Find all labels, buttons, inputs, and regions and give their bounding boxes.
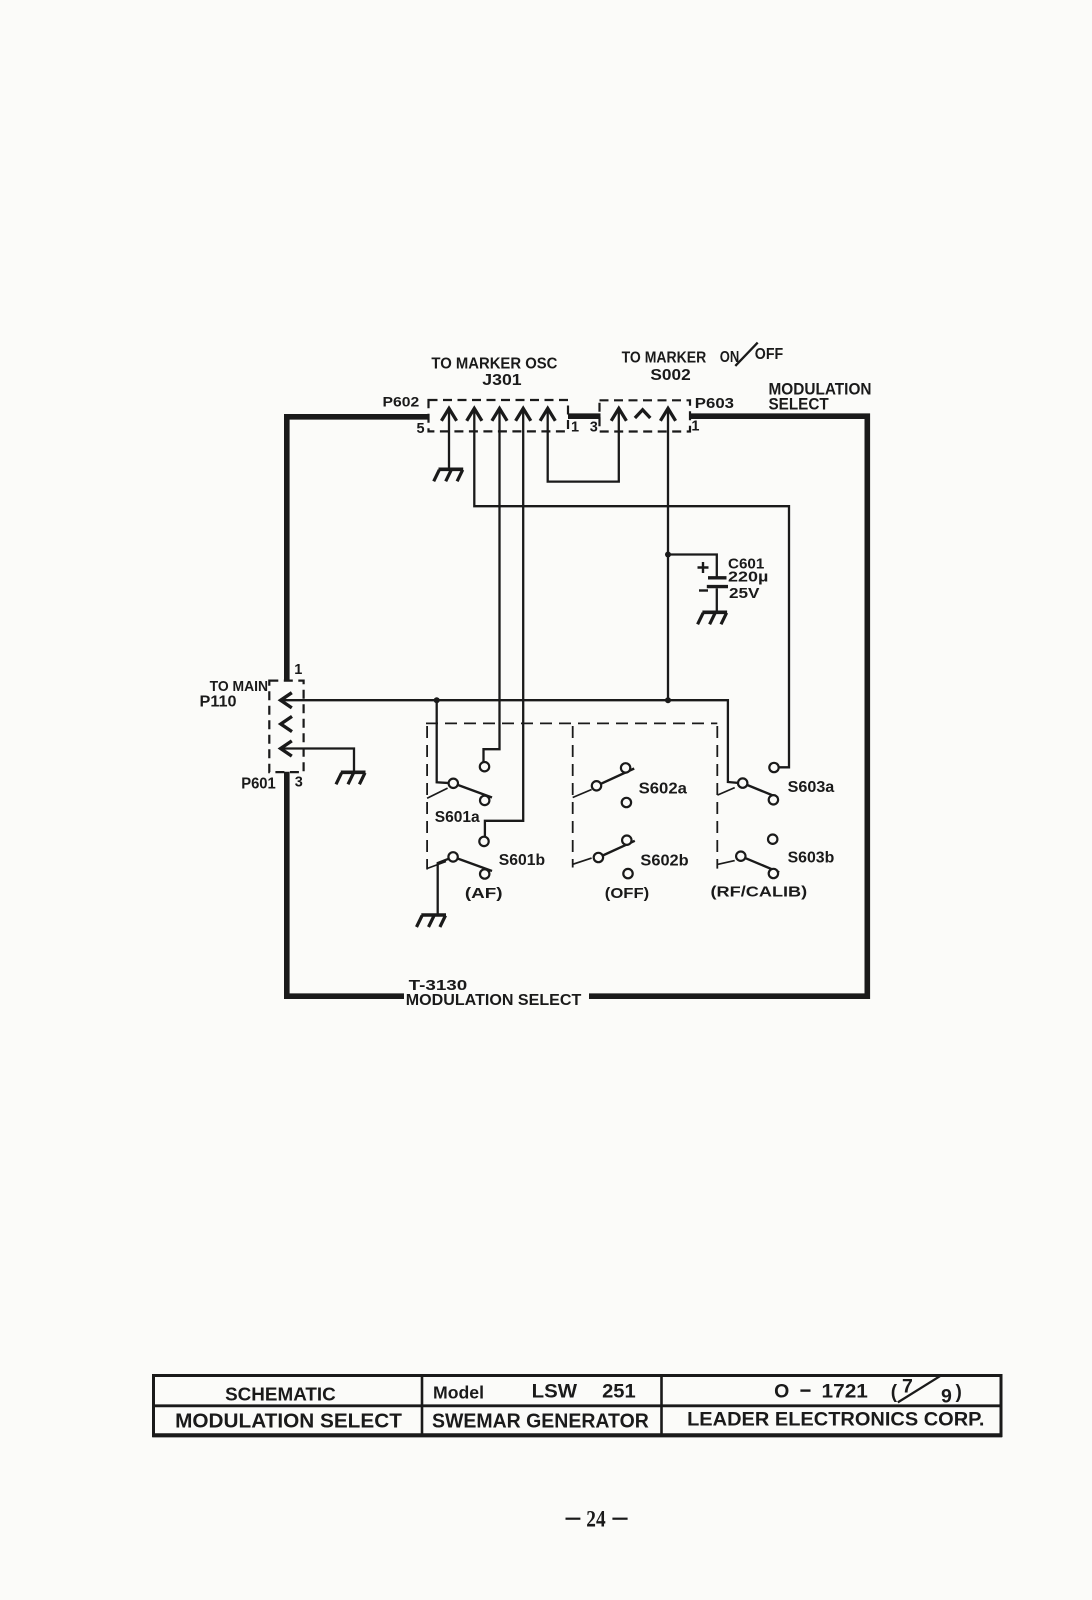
module boundary: top-right, right border, bottom-right segment bbox=[589, 416, 867, 996]
module boundary: bottom-left segment and left lower border bbox=[287, 772, 404, 996]
switch wafer S601 dashed vertical bbox=[426, 726, 428, 870]
switch wafer dashed line horizontal bbox=[426, 722, 717, 724]
wire P602 pin1 to P603 pin3 bbox=[548, 410, 619, 482]
svg-text:LSW: LSW bbox=[532, 1382, 577, 1403]
switch S603a bbox=[717, 763, 778, 805]
svg-text:SCHEMATIC: SCHEMATIC bbox=[225, 1384, 336, 1404]
node bus junction at S601 branch bbox=[434, 697, 440, 703]
wire S601b pivot to ground bbox=[438, 859, 449, 914]
svg-text:O: O bbox=[774, 1380, 789, 1402]
svg-text:(RF/CALIB): (RF/CALIB) bbox=[711, 884, 808, 901]
connector P602 pin arrows bbox=[441, 408, 555, 420]
svg-text:1721: 1721 bbox=[822, 1382, 869, 1403]
svg-text:P110: P110 bbox=[200, 693, 237, 710]
title block table bbox=[152, 1376, 1002, 1436]
svg-text:251: 251 bbox=[602, 1382, 636, 1403]
node bus junction at P603 branch bbox=[665, 697, 671, 703]
capacitor C601 bbox=[698, 562, 729, 611]
svg-text:S601b: S601b bbox=[499, 852, 546, 869]
switch wafer S602 dashed vertical bbox=[572, 726, 574, 868]
svg-text:LEADER ELECTRONICS CORP.: LEADER ELECTRONICS CORP. bbox=[687, 1408, 984, 1430]
wire P602 pin4 to S603a upper contact bbox=[474, 410, 789, 767]
wire bus branch to S601a pivot bbox=[437, 700, 454, 783]
svg-text:P601: P601 bbox=[241, 775, 276, 792]
svg-text:P603: P603 bbox=[695, 395, 734, 412]
svg-text:(OFF): (OFF) bbox=[605, 885, 649, 902]
wire P603 pin1 down to bus node bbox=[667, 410, 669, 700]
svg-text:Model: Model bbox=[433, 1382, 484, 1402]
svg-text:9: 9 bbox=[941, 1385, 952, 1407]
switch S603b bbox=[718, 835, 779, 879]
svg-text:3: 3 bbox=[590, 419, 598, 435]
svg-text:1: 1 bbox=[691, 419, 699, 435]
svg-text:SWEMAR GENERATOR: SWEMAR GENERATOR bbox=[432, 1411, 649, 1433]
switch S602b bbox=[573, 836, 635, 879]
ground below P602 pin 5 bbox=[434, 469, 464, 481]
ground below S601b bbox=[417, 915, 447, 927]
wire C601 branch bbox=[668, 555, 717, 577]
title block text LSW 251 bbox=[532, 1382, 636, 1403]
switch wafer S603 dashed vertical bbox=[716, 726, 718, 869]
svg-text:(AF): (AF) bbox=[465, 885, 503, 902]
wire P602 pin2 to S601b upper contact bbox=[485, 410, 523, 841]
switch S601a bbox=[427, 762, 492, 805]
label MODULATION SELECT top right bbox=[769, 379, 872, 413]
svg-text:MODULATION SELECT: MODULATION SELECT bbox=[175, 1411, 402, 1433]
svg-text:1: 1 bbox=[571, 420, 579, 436]
label TO MARKER ON/OFF bbox=[622, 343, 784, 367]
wire P602 pin5 to ground bbox=[448, 410, 450, 469]
svg-text:S603a: S603a bbox=[788, 779, 835, 796]
connector P602 dashed box bbox=[429, 400, 569, 431]
wire P602 pin3 to S601a upper contact bbox=[484, 410, 500, 767]
wire main bus P601 pin1 to S603a pivot bbox=[283, 700, 743, 783]
svg-text:3: 3 bbox=[295, 775, 303, 791]
connector P601 dashed box bbox=[269, 681, 303, 773]
svg-text:220µ: 220µ bbox=[728, 569, 768, 586]
svg-text:(: ( bbox=[891, 1382, 898, 1403]
svg-text:5: 5 bbox=[417, 421, 425, 437]
svg-text:S603b: S603b bbox=[788, 849, 835, 866]
svg-text:25V: 25V bbox=[729, 585, 760, 602]
svg-text:MODULATION SELECT: MODULATION SELECT bbox=[406, 992, 582, 1009]
page number 24 bbox=[566, 1506, 628, 1531]
svg-text:TO MAIN: TO MAIN bbox=[210, 678, 268, 695]
svg-text:SELECT: SELECT bbox=[769, 395, 830, 414]
switch S601b bbox=[427, 837, 492, 879]
label TO MAIN P110 bbox=[200, 678, 269, 711]
ground below C601 bbox=[698, 612, 728, 624]
svg-text:OFF: OFF bbox=[755, 346, 784, 363]
svg-text:): ) bbox=[956, 1382, 962, 1403]
svg-text:24: 24 bbox=[586, 1506, 606, 1531]
switch S602a bbox=[573, 763, 635, 807]
svg-text:1: 1 bbox=[294, 662, 302, 678]
connector P603 dashed box bbox=[600, 400, 691, 431]
svg-text:J301: J301 bbox=[482, 372, 521, 389]
svg-text:S002: S002 bbox=[650, 367, 690, 384]
title block text O-1721 (7/9) bbox=[774, 1375, 962, 1407]
svg-text:S602a: S602a bbox=[639, 780, 687, 797]
svg-text:TO MARKER: TO MARKER bbox=[622, 349, 707, 366]
svg-text:S601a: S601a bbox=[435, 809, 480, 826]
connector P603 pin arrows bbox=[611, 408, 675, 420]
module boundary: thick segment between P602 and P603 bbox=[568, 413, 601, 419]
node C601 junction bbox=[665, 552, 671, 558]
ground at P601 pin 3 bbox=[336, 772, 366, 784]
module boundary T-3130: top-left corner and left upper border bbox=[287, 417, 429, 681]
svg-text:TO MARKER OSC: TO MARKER OSC bbox=[431, 355, 557, 372]
label C601 value bbox=[728, 555, 768, 602]
connector P601 pin arrows bbox=[281, 693, 292, 756]
svg-text:P602: P602 bbox=[383, 393, 420, 409]
wire P601 pin3 to ground bbox=[283, 749, 354, 772]
svg-text:S602b: S602b bbox=[640, 853, 689, 870]
